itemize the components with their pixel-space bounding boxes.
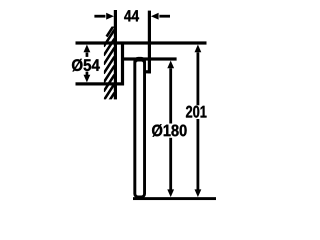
dimension 201: value label xyxy=(186,106,207,118)
top extension line: plate top / arm top / 201 top reference xyxy=(76,41,207,44)
wall plate right edge xyxy=(121,43,124,85)
plate bottom / dim 54 bottom extension line xyxy=(76,82,125,85)
bottom extension line (ring bottom tangent, shared by dim 180 and 201) xyxy=(133,197,216,200)
dimension 44: right arrow and tail xyxy=(151,13,159,20)
dimension 180: value label xyxy=(152,124,186,136)
wall surface line (also left extension line of dim 44) xyxy=(114,10,117,99)
holder front face (also right extension line of dim 44) xyxy=(148,11,151,74)
dimension 180: vertical line with arrows xyxy=(167,61,174,69)
wall hatching xyxy=(104,25,115,109)
holder bottom / ring top tangent / diameter 180 top extension line xyxy=(122,57,177,60)
dimension 44: value label xyxy=(124,10,139,21)
dimension 44: left arrow and tail xyxy=(94,15,105,18)
towel ring (side view loop) xyxy=(133,57,146,199)
holder bottom edge (right of ring) xyxy=(144,70,151,73)
dimension 54: vertical line with arrows xyxy=(84,45,91,53)
dimension 201: vertical line with arrows xyxy=(195,45,202,53)
dimension 54: value label xyxy=(72,59,100,72)
